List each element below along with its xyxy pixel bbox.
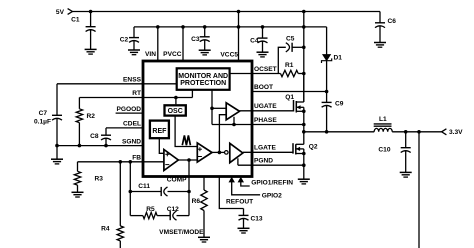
ground (C4) bbox=[257, 52, 269, 57]
wire compnet right vertical bbox=[188, 192, 190, 216]
svg-text:UGATE: UGATE bbox=[254, 103, 277, 110]
pin label PGND bbox=[254, 158, 273, 165]
wire 5V down to OCSET vertical bbox=[303, 12, 305, 48]
wire error amp output bbox=[178, 159, 197, 161]
wire OSC to ramp bbox=[175, 116, 197, 147]
junction Q2 source bbox=[302, 152, 306, 156]
wire PWM output bbox=[212, 151, 225, 153]
wire C4 to ground bbox=[262, 41, 264, 52]
capacitor C12 bbox=[167, 206, 179, 220]
junction main right vertical top bbox=[302, 10, 306, 14]
junction phase node bbox=[302, 130, 306, 134]
wire R5 to C12 bbox=[157, 215, 170, 217]
junction C8 on rail bbox=[104, 144, 108, 148]
pin label GPIO1/REFIN bbox=[251, 179, 293, 186]
svg-text:VMSET/MODE: VMSET/MODE bbox=[159, 229, 204, 236]
junction C1 tap bbox=[89, 10, 93, 14]
wire C8 to SGND rail bbox=[105, 138, 107, 145]
transistor Q1 bbox=[285, 94, 304, 112]
wire Q2 source to ground bbox=[303, 154, 305, 180]
wire C1 to ground bbox=[90, 30, 92, 50]
svg-text:GPIO2: GPIO2 bbox=[262, 193, 282, 200]
wire D1 to BOOT bbox=[326, 61, 328, 92]
wire FB to R3 bbox=[77, 162, 79, 172]
ground (C10) bbox=[400, 172, 412, 177]
wire pin VIN bbox=[157, 27, 159, 61]
wire C3 stem bbox=[204, 27, 206, 37]
resistor R6 bbox=[192, 190, 208, 211]
svg-text:C12: C12 bbox=[167, 206, 179, 213]
wire pin FB bbox=[78, 161, 164, 163]
capacitor C8 bbox=[90, 133, 111, 140]
pin label CDEL bbox=[123, 121, 141, 128]
wire C13 stem bbox=[243, 209, 245, 216]
svg-text:Q1: Q1 bbox=[285, 94, 294, 101]
wire ENSS to C7 bbox=[56, 84, 58, 116]
junction VCC5 drop bbox=[237, 10, 241, 14]
wire RT to MONITOR bbox=[191, 90, 193, 98]
pin label RT bbox=[132, 90, 141, 97]
inductor L1 bbox=[374, 116, 393, 132]
svg-text:C3: C3 bbox=[191, 36, 200, 43]
svg-text:PVCC: PVCC bbox=[163, 51, 182, 58]
junction R2 on rail bbox=[78, 144, 82, 148]
junction C4 tap bbox=[261, 25, 265, 29]
ground (R3) bbox=[72, 192, 84, 197]
wire feedback to bottom bbox=[418, 132, 420, 248]
wire C6 drop bbox=[379, 12, 381, 23]
wire CDEL to C8 bbox=[105, 128, 107, 135]
svg-text:OSC: OSC bbox=[168, 108, 183, 115]
wire C7 to SGND rail bbox=[56, 118, 58, 145]
svg-text:R5: R5 bbox=[146, 206, 155, 213]
ground (C1) bbox=[85, 49, 97, 54]
junction monitor/driver branch bbox=[210, 107, 214, 111]
wire R1 to vertical bbox=[298, 73, 304, 75]
wire pin PVCC bbox=[182, 27, 184, 61]
wire R4 lower lead bbox=[119, 241, 121, 248]
pin label BOOT bbox=[254, 84, 273, 91]
resistor R6 wire bbox=[203, 177, 205, 191]
svg-text:5V: 5V bbox=[56, 9, 65, 16]
op-amp LGATE driver bbox=[225, 143, 243, 162]
svg-text:C5: C5 bbox=[286, 36, 295, 43]
junction BOOT/D1/C9 bbox=[325, 90, 329, 94]
junction feedback tap bbox=[417, 130, 421, 134]
pin label GPIO2 bbox=[262, 193, 282, 200]
pin label OCSET bbox=[254, 66, 277, 73]
junction C10 tap bbox=[404, 130, 408, 134]
wire C4 stem bbox=[262, 27, 264, 38]
svg-text:L1: L1 bbox=[379, 116, 387, 123]
svg-text:PHASE: PHASE bbox=[254, 117, 277, 124]
block REF bbox=[150, 121, 169, 139]
wire C9 to phase bbox=[326, 105, 328, 131]
svg-text:C8: C8 bbox=[90, 133, 99, 140]
5V input arrow bbox=[68, 9, 73, 15]
capacitor C5 bbox=[286, 36, 295, 52]
wire C5 right bbox=[292, 46, 304, 48]
wire pin PHASE bbox=[212, 124, 304, 126]
pin label VIN bbox=[145, 51, 156, 58]
op-amp U1 IC outline bbox=[143, 61, 252, 177]
svg-text:C9: C9 bbox=[335, 100, 344, 107]
op-amp PWM comparator bbox=[197, 143, 212, 162]
junction VCC5 rail tap bbox=[237, 25, 241, 29]
ground (R6) bbox=[198, 237, 210, 242]
pin label PVCC bbox=[163, 51, 182, 58]
svg-text:BOOT: BOOT bbox=[254, 84, 273, 91]
junction phase sense bbox=[232, 123, 236, 127]
svg-text:VIN: VIN bbox=[145, 51, 156, 58]
wire L1 to output bbox=[392, 131, 441, 133]
wire C12 right bbox=[177, 215, 190, 217]
junction PVCC tap bbox=[181, 25, 185, 29]
wire C10 stem bbox=[405, 132, 407, 148]
svg-text:R1: R1 bbox=[285, 62, 294, 69]
wire R2 to SGND rail bbox=[78, 123, 80, 146]
svg-text:R4: R4 bbox=[101, 225, 110, 232]
wire phase to L1 bbox=[304, 131, 374, 133]
pin label COMP bbox=[167, 177, 187, 184]
pin GPIO1/REFIN arrow bbox=[238, 177, 250, 186]
wire MONITOR to drivers vertical bbox=[211, 90, 213, 125]
junction C5 right bbox=[302, 46, 306, 50]
svg-text:COMP: COMP bbox=[167, 177, 187, 184]
wire R3 to ground bbox=[77, 185, 79, 192]
wire C6 to ground bbox=[379, 26, 381, 43]
svg-text:SGND: SGND bbox=[122, 138, 141, 145]
node 3.3V output label bbox=[449, 129, 463, 136]
node 5V input label bbox=[56, 9, 65, 16]
wire Q1 source to phase bbox=[303, 111, 305, 132]
wire RT to OSC bbox=[175, 98, 177, 105]
capacitor C10 bbox=[378, 147, 410, 154]
wire pin ENSS bbox=[57, 83, 177, 85]
resistor R3 bbox=[74, 171, 103, 185]
wire pin RT bbox=[79, 97, 192, 99]
svg-text:RT: RT bbox=[132, 90, 141, 97]
junction C3 tap bbox=[203, 25, 207, 29]
wire compnet left vertical bbox=[129, 162, 131, 216]
junction R1 right bbox=[302, 72, 306, 76]
junction FB/R4 bbox=[119, 160, 123, 164]
resistor R4 bbox=[101, 225, 123, 241]
resistor R5 bbox=[143, 206, 157, 219]
svg-text:GPIO1/REFIN: GPIO1/REFIN bbox=[251, 179, 293, 186]
pin label VCC5 bbox=[220, 51, 238, 58]
wire R5 row left bbox=[130, 215, 143, 217]
svg-text:OCSET: OCSET bbox=[254, 66, 277, 73]
op-amp error amplifier bbox=[164, 150, 178, 171]
wire 5V-to-VCCrail link bbox=[238, 12, 240, 27]
wire phase sense to driver bbox=[233, 117, 235, 125]
svg-text:C13: C13 bbox=[251, 215, 263, 222]
pin GPIO2 arrow bbox=[229, 177, 261, 195]
pin label UGATE bbox=[254, 103, 277, 110]
wire R6 to ground bbox=[203, 211, 205, 238]
svg-text:REF: REF bbox=[152, 128, 167, 135]
svg-text:3.3V: 3.3V bbox=[449, 129, 463, 136]
wire LGATE driver to PGND bbox=[237, 158, 239, 165]
capacitor C9 stem bbox=[326, 92, 328, 103]
pin label PGOOD bbox=[116, 106, 141, 113]
wire rail to ground bbox=[56, 146, 58, 160]
capacitor C11 bbox=[138, 183, 167, 196]
wire OCSET vertical to Q1 bbox=[303, 47, 305, 102]
junction C7/gnd on rail bbox=[55, 144, 59, 148]
wire monitor to UGATE driver bbox=[212, 107, 226, 109]
wire pin OCSET bbox=[230, 73, 281, 75]
svg-text:R6: R6 bbox=[192, 198, 201, 205]
pin label VMSET/MODE bbox=[159, 229, 204, 236]
pin label REFOUT bbox=[226, 199, 253, 206]
junction compnet C11 left bbox=[129, 190, 133, 194]
wire COMP pin bbox=[188, 160, 190, 192]
wire C2 to ground bbox=[133, 41, 135, 50]
wire D1 drop bbox=[326, 27, 328, 55]
wire C3 to ground bbox=[204, 40, 206, 50]
junction PGND/Q2 bbox=[302, 163, 306, 167]
svg-text:C10: C10 bbox=[378, 147, 390, 154]
pin label LGATE bbox=[254, 145, 276, 152]
wire 5V rail bbox=[72, 11, 380, 13]
wire pin CDEL bbox=[106, 127, 143, 129]
ground (C3) bbox=[199, 50, 211, 55]
junction RT/OSC bbox=[174, 96, 178, 100]
junction compnet COMP node bbox=[187, 190, 191, 194]
svg-text:C2: C2 bbox=[120, 36, 129, 43]
op-amp UGATE driver bbox=[226, 103, 239, 120]
svg-text:FB: FB bbox=[132, 155, 141, 162]
junction EAout/COMP bbox=[187, 158, 191, 162]
resistor R2 bbox=[76, 109, 95, 123]
wire pin BOOT bbox=[252, 91, 327, 93]
svg-text:R3: R3 bbox=[95, 176, 104, 183]
svg-text:C11: C11 bbox=[138, 183, 150, 190]
junction VCC rail / right vertical bbox=[302, 25, 306, 29]
wire PWM to UGATE driver bbox=[219, 115, 226, 153]
svg-text:LGATE: LGATE bbox=[254, 145, 276, 152]
wire C13 to ground bbox=[243, 218, 245, 228]
svg-text:D1: D1 bbox=[334, 54, 343, 61]
3.3V output arrow bbox=[442, 129, 447, 135]
capacitor C9 bbox=[322, 100, 344, 107]
wire pin PGOOD bbox=[116, 112, 143, 114]
junction PHASE/Q1 vertical bbox=[302, 123, 306, 127]
wire pin PGND bbox=[238, 164, 304, 166]
svg-text:REFOUT: REFOUT bbox=[226, 199, 253, 206]
capacitor C4 bbox=[250, 37, 267, 44]
junction VIN tap bbox=[156, 25, 160, 29]
svg-text:0.1µF: 0.1µF bbox=[34, 119, 51, 126]
capacitor C2 bbox=[120, 36, 139, 43]
wire pin LGATE bbox=[243, 151, 293, 153]
svg-text:C7: C7 bbox=[39, 110, 48, 117]
wire pin SGND rail bbox=[57, 145, 143, 147]
svg-text:VCC5: VCC5 bbox=[220, 51, 238, 58]
ground (C13) bbox=[238, 228, 250, 233]
ground (C2) bbox=[128, 50, 140, 55]
capacitor C6 bbox=[375, 18, 396, 28]
svg-text:PGND: PGND bbox=[254, 158, 273, 165]
wire C10 to ground bbox=[405, 151, 407, 173]
pin label PHASE bbox=[254, 117, 277, 124]
block MONITOR AND PROTECTION bbox=[177, 68, 230, 90]
svg-text:C6: C6 bbox=[388, 18, 397, 25]
junction C9 bottom bbox=[325, 130, 329, 134]
svg-text:ENSS: ENSS bbox=[123, 77, 142, 84]
ground (C6) bbox=[374, 43, 386, 48]
wire Q1 drain bbox=[303, 74, 305, 103]
svg-text:C4: C4 bbox=[250, 37, 259, 44]
junction PWM output bbox=[218, 151, 222, 155]
wire Q2 drain bbox=[303, 132, 305, 145]
node sawtooth ramp symbol bbox=[182, 135, 190, 145]
wire pin UGATE bbox=[240, 110, 294, 112]
pin label SGND bbox=[122, 138, 141, 145]
wire C1 stem bbox=[90, 12, 92, 27]
svg-text:R2: R2 bbox=[87, 113, 96, 120]
pin label FB bbox=[132, 155, 141, 162]
transistor Q2 bbox=[293, 143, 318, 154]
wire REF to error amp bbox=[159, 137, 164, 153]
wire C11 left bbox=[130, 191, 161, 193]
capacitor C13 bbox=[239, 215, 263, 222]
svg-text:CDEL: CDEL bbox=[123, 121, 141, 128]
capacitor C7 bbox=[34, 110, 62, 126]
wire FB to R4 bbox=[119, 162, 121, 226]
capacitor C1 bbox=[71, 17, 96, 32]
diode D1 (schottky) bbox=[322, 54, 343, 63]
svg-text:PROTECTION: PROTECTION bbox=[180, 80, 226, 87]
pin label ENSS bbox=[123, 77, 142, 84]
svg-text:Q2: Q2 bbox=[309, 143, 318, 150]
block OSC bbox=[165, 105, 186, 115]
wire C2 stem bbox=[133, 27, 135, 38]
capacitor C3 bbox=[191, 36, 210, 43]
svg-text:PGOOD: PGOOD bbox=[116, 106, 141, 113]
wire VCC feed rail bbox=[134, 26, 327, 28]
wire C5 branch bbox=[278, 47, 286, 73]
wire pin VCC5 bbox=[238, 27, 240, 61]
junction Q1 source bbox=[302, 110, 306, 114]
resistor R1 bbox=[281, 62, 299, 77]
ground (Q2/PGND) bbox=[298, 179, 310, 184]
wire C11 right bbox=[168, 191, 190, 193]
wire RT to R2 bbox=[78, 98, 80, 109]
ground (SGND) bbox=[51, 159, 63, 164]
junction FB/compnet bbox=[129, 160, 133, 164]
wire pin REFOUT bbox=[219, 177, 243, 209]
svg-text:C1: C1 bbox=[71, 17, 80, 24]
